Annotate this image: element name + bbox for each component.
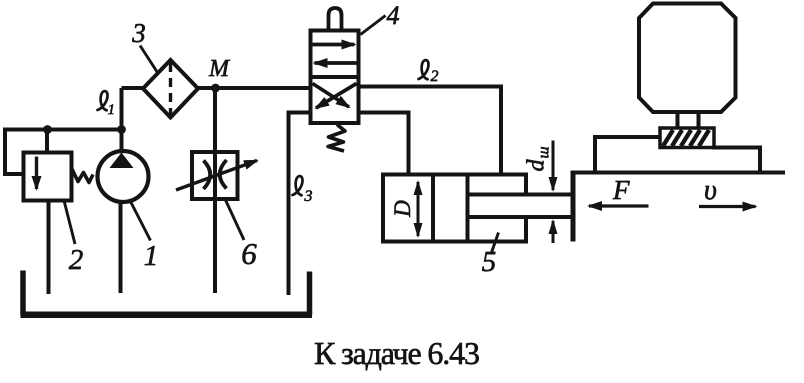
cylinder rod — [468, 193, 572, 197]
svg-text:2: 2 — [69, 244, 84, 276]
svg-text:4: 4 — [387, 1, 400, 30]
wire: filter to valve (through node M) — [198, 86, 312, 90]
wire: relief valve top connection — [45, 130, 49, 153]
relief valve 2 body — [24, 153, 72, 201]
wire l2: valve right top port to cylinder rod side — [359, 87, 502, 175]
cylinder 5 body — [383, 175, 526, 242]
svg-text:υ: υ — [704, 175, 717, 206]
valve 4 top box right arrow — [311, 43, 355, 47]
junction dot at pump line — [117, 125, 126, 134]
throttle 6 adjustment arrow — [176, 161, 257, 191]
svg-text:5: 5 — [482, 246, 497, 278]
valve 4 top box left arrow — [315, 61, 359, 65]
valve 4 box divider — [311, 75, 359, 79]
dimension d_sh bottom arrow — [552, 221, 555, 243]
label 3 leader — [140, 46, 158, 73]
mass octagon — [639, 4, 736, 113]
throttle 6 venturi arcs — [204, 161, 211, 190]
svg-text:6: 6 — [241, 236, 257, 271]
carriage left step — [595, 137, 661, 173]
svg-text:К задаче 6.43: К задаче 6.43 — [314, 335, 480, 371]
dimension d_sh top arrow — [552, 141, 555, 191]
tank — [23, 271, 310, 316]
label 2 leader — [64, 201, 75, 245]
svg-text:F: F — [612, 175, 630, 205]
wire: return line l3 vertical — [287, 111, 291, 296]
dimension D arrow — [417, 182, 420, 208]
valve 4 crossed arrow A — [316, 84, 357, 109]
wire l1 horizontal: corner to filter — [122, 86, 145, 90]
svg-text:2: 2 — [431, 68, 439, 85]
label 6 leader — [226, 200, 245, 240]
wire: relief valve drain to tank — [47, 201, 51, 295]
relief valve 2 pilot line — [5, 130, 47, 175]
wire: pump suction to tank — [119, 202, 123, 293]
svg-text:3: 3 — [304, 188, 313, 205]
junction dot left — [43, 125, 52, 134]
node M dot — [211, 84, 220, 93]
wire: l3 horizontal to valve left bottom port — [287, 111, 311, 115]
pump 1 circle — [98, 151, 149, 202]
filter 3 dashed element — [169, 63, 172, 115]
hatched block — [660, 128, 714, 148]
label l3 — [293, 176, 313, 205]
relief valve 2 arrow — [35, 157, 38, 190]
throttle 6 body — [192, 152, 238, 199]
svg-text:M: M — [208, 56, 231, 82]
label 4 leader — [361, 16, 386, 35]
filter 3 diamond — [143, 60, 198, 118]
label l1 — [98, 91, 116, 118]
svg-text:d: d — [524, 159, 550, 172]
carriage right step — [712, 148, 760, 173]
valve 4 plunger button — [329, 8, 342, 31]
cylinder 5 piston left face — [431, 175, 435, 242]
svg-text:D: D — [390, 200, 415, 218]
svg-text:ш: ш — [536, 146, 553, 158]
svg-text:1: 1 — [144, 240, 159, 272]
ground line — [571, 171, 786, 175]
cylinder 5 piston right face — [466, 175, 470, 242]
svg-text:1: 1 — [108, 102, 116, 118]
wire: valve right bottom port to cylinder cap side — [359, 113, 409, 175]
slide wall — [571, 173, 576, 242]
wire: node M down through throttle to tank — [213, 88, 217, 293]
force F arrow — [589, 204, 649, 207]
svg-text:3: 3 — [131, 18, 146, 48]
pump 1 triangle — [110, 153, 134, 169]
relief valve 2 spring — [72, 169, 93, 183]
label d_sh — [524, 146, 553, 171]
wire l1 vertical: filter corner down to pump — [120, 88, 124, 152]
label l2 — [419, 60, 439, 85]
valve 4 body — [311, 31, 359, 124]
valve 4 return spring — [328, 125, 345, 152]
wire: pilot line along top — [47, 128, 122, 132]
velocity v arrow — [699, 205, 756, 208]
mass neck — [676, 112, 680, 128]
label 5 leader — [492, 233, 499, 253]
valve 4 crossed arrow B — [313, 84, 350, 108]
label 1 leader — [131, 202, 151, 241]
